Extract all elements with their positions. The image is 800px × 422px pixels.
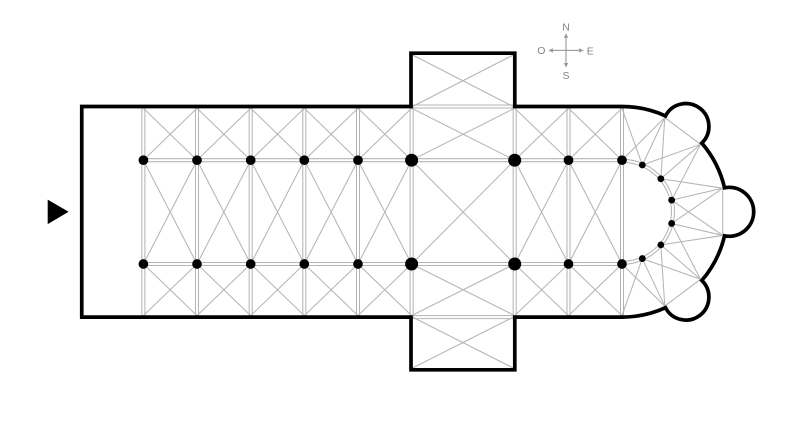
north aisle vault diagonal ribs — [143, 108, 622, 160]
ambulatory radiating ribs — [622, 108, 723, 315]
entrance arrow triangle — [48, 200, 69, 225]
svg-text:E: E — [587, 45, 594, 57]
nave arcade vertical double lines — [142, 107, 624, 318]
compass labels N S O E — [537, 22, 594, 82]
church outer wall with transept and chapels — [82, 53, 754, 370]
nave central vault diagonal ribs — [143, 160, 622, 264]
svg-text:S: S — [562, 70, 569, 82]
transept opening double lines — [412, 105, 515, 319]
south nave pier dots — [139, 259, 627, 269]
south aisle vault diagonal ribs — [143, 264, 622, 316]
apse hemicycle column dots — [639, 162, 675, 262]
north nave pier dots — [139, 155, 627, 165]
north transept arm vault ribs — [413, 55, 514, 107]
hemicycle arcade double arc — [622, 159, 674, 264]
svg-text:N: N — [562, 22, 570, 34]
pier row horizontal double lines — [143, 159, 622, 266]
compass rose arrows — [552, 37, 580, 63]
south transept arm vault ribs — [413, 317, 514, 368]
svg-text:O: O — [537, 45, 545, 57]
crossing pier dots — [405, 154, 521, 271]
chapel opening chords — [665, 118, 723, 307]
